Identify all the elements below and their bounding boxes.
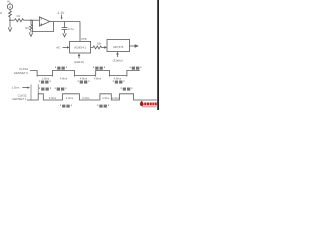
svg-text:1.5ms: 1.5ms: [12, 86, 20, 90]
svg-text:IN: IN: [7, 0, 10, 3]
svg-text:R1: R1: [17, 14, 21, 18]
svg-text:(31kHz): (31kHz): [74, 60, 84, 64]
svg-text:4.3ms: 4.3ms: [82, 96, 90, 100]
svg-text:(31kHz): (31kHz): [113, 59, 123, 63]
svg-text:3.3ms: 3.3ms: [49, 96, 57, 100]
svg-text:4.3ms: 4.3ms: [66, 96, 74, 100]
svg-text:R: R: [0, 12, 2, 15]
svg-text:1.8ms: 1.8ms: [42, 76, 50, 80]
svg-text:0.1u: 0.1u: [68, 27, 74, 31]
svg-text:VTB: VTB: [81, 37, 87, 41]
svg-text:4.8ms: 4.8ms: [80, 76, 88, 80]
svg-text:4.3ms: 4.3ms: [102, 96, 110, 100]
svg-text:AD7476: AD7476: [113, 45, 124, 49]
svg-text:GENSET 1: GENSET 1: [12, 97, 27, 101]
svg-text:R2: R2: [25, 26, 29, 30]
svg-text:AD8541: AD8541: [74, 45, 86, 49]
svg-text:10k: 10k: [97, 42, 102, 46]
svg-text:2.3ms: 2.3ms: [112, 96, 120, 100]
svg-text:-1.1V: -1.1V: [57, 11, 65, 15]
svg-text:GENSET 0: GENSET 0: [14, 71, 29, 75]
svg-text:4.8ms: 4.8ms: [94, 76, 102, 80]
svg-text:4.8ms: 4.8ms: [60, 76, 68, 80]
svg-text:AC: AC: [56, 46, 60, 50]
svg-text:4.8ms: 4.8ms: [114, 76, 122, 80]
